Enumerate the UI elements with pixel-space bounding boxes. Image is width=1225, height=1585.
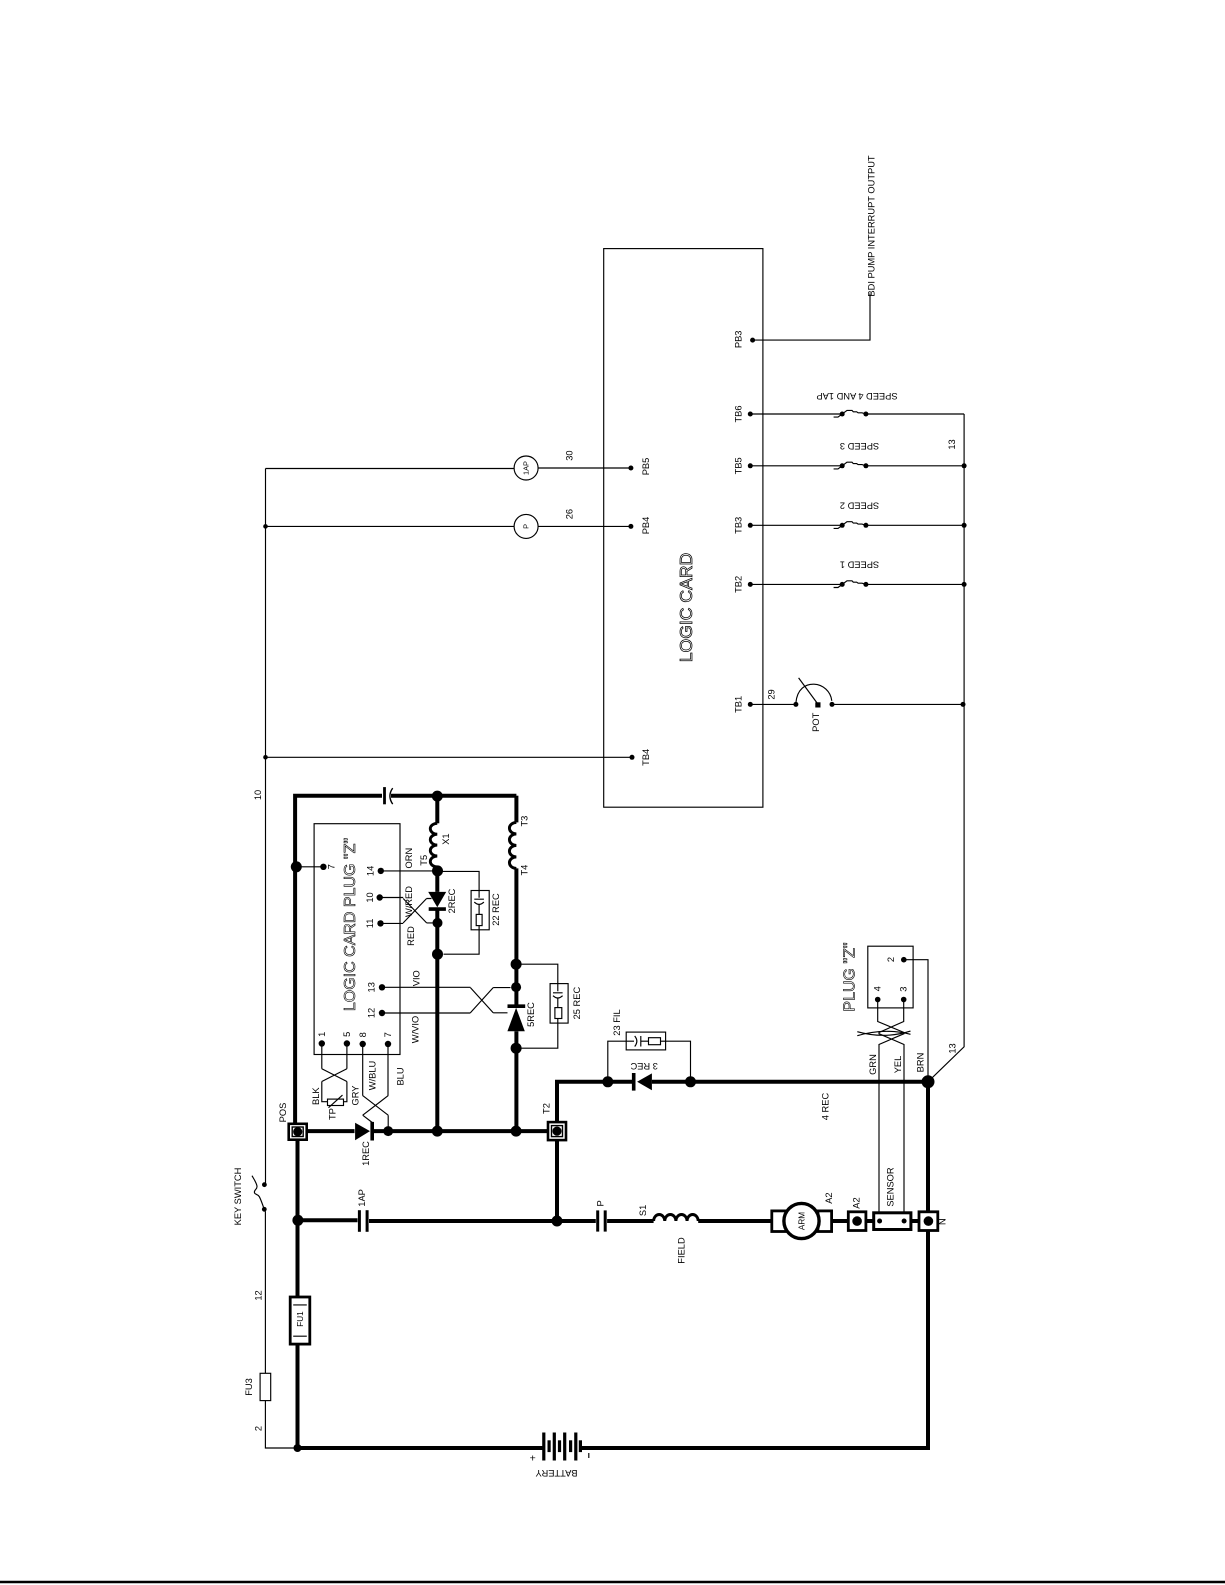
- cable twist symbol: [857, 1031, 910, 1036]
- pin 7 top of plug: [320, 864, 326, 870]
- coil P: [514, 514, 538, 538]
- svg-text:P: P: [522, 524, 531, 529]
- node 23FIL left: [602, 1076, 613, 1087]
- wire A2 to sensor: [866, 1219, 874, 1223]
- svg-text:FIELD: FIELD: [676, 1237, 686, 1264]
- svg-text:POT: POT: [811, 712, 821, 731]
- pin 13: [379, 984, 385, 990]
- wire 30: left rail corner to coil 1AP to PB5: [266, 467, 631, 470]
- node pin7 junction on thick line: [291, 861, 302, 872]
- wire P to FIELD: [607, 1219, 654, 1223]
- wire: thin left rail from wire30 corner down to key switch: [265, 469, 267, 1185]
- svg-text:30: 30: [564, 450, 574, 460]
- wire GRN pin4 twisted to sensor: [878, 1000, 904, 1213]
- svg-text:1: 1: [317, 1032, 327, 1037]
- fuse FU1: [290, 1297, 310, 1344]
- svg-text:A2: A2: [824, 1192, 834, 1203]
- fuse FU3: [260, 1373, 271, 1400]
- wire TB2 to switch: [750, 583, 964, 585]
- node TB1: [748, 702, 753, 707]
- svg-text:BDI PUMP INTERRUPT OUTPUT: BDI PUMP INTERRUPT OUTPUT: [867, 155, 877, 297]
- svg-text:X1: X1: [441, 833, 451, 844]
- snubber 25 REC: [522, 964, 582, 1048]
- svg-text:W/VIO: W/VIO: [410, 1016, 420, 1043]
- pin 12: [379, 1010, 385, 1016]
- capacitor P: [595, 1200, 605, 1231]
- wire X1 branch top: [435, 796, 439, 824]
- svg-text:13: 13: [367, 982, 377, 992]
- switch SPEED 1: [834, 581, 869, 588]
- svg-text:12: 12: [367, 1008, 377, 1018]
- node 25REC top: [511, 959, 522, 970]
- svg-text:FU3: FU3: [244, 1378, 254, 1396]
- battery: [530, 1433, 589, 1478]
- svg-text:29: 29: [767, 689, 777, 699]
- svg-text:TB1: TB1: [734, 696, 744, 713]
- terminal N: [919, 1212, 947, 1231]
- svg-text:BLK: BLK: [311, 1087, 321, 1105]
- svg-text:+: +: [530, 1453, 536, 1465]
- wire PB3 to BDI output: [753, 293, 870, 340]
- svg-text:2REC: 2REC: [447, 888, 457, 913]
- node below 2REC: [433, 918, 443, 928]
- motor ARM: [772, 1192, 834, 1238]
- svg-text:PB3: PB3: [734, 331, 744, 349]
- wire sensor to N: [911, 1219, 919, 1223]
- wire to P cap: [557, 1219, 596, 1223]
- bottom page rule: [0, 1581, 1225, 1583]
- wire pins 10/11 crossed to 2REC: [380, 898, 435, 924]
- wire TB3 to switch: [750, 524, 964, 526]
- diode 2REC: [428, 888, 457, 913]
- svg-text:LOGIC CARD: LOGIC CARD: [676, 553, 696, 663]
- svg-text:A2: A2: [851, 1197, 861, 1208]
- diode 1REC: [355, 1122, 372, 1166]
- svg-text:POS: POS: [278, 1103, 288, 1123]
- svg-text:4: 4: [873, 986, 883, 991]
- svg-text:SPEED 1: SPEED 1: [840, 560, 879, 570]
- node TB2: [748, 582, 753, 587]
- svg-text:SPEED 3: SPEED 3: [840, 441, 879, 451]
- svg-text:8: 8: [358, 1032, 368, 1037]
- transformer coil T3/T4: [509, 822, 516, 868]
- svg-text:YEL: YEL: [893, 1056, 903, 1074]
- svg-text:BRN: BRN: [916, 1053, 926, 1073]
- wire pin14 to X1 node: [381, 870, 438, 872]
- node on rail for TB4 wire: [263, 755, 268, 760]
- svg-text:GRY: GRY: [350, 1086, 360, 1106]
- svg-text:SENSOR: SENSOR: [886, 1167, 896, 1207]
- svg-text:10: 10: [365, 892, 375, 902]
- svg-text:TB2: TB2: [734, 576, 744, 593]
- svg-text:LOGIC CARD PLUG "Z": LOGIC CARD PLUG "Z": [342, 838, 359, 1011]
- node 5REC bottom: [511, 1043, 522, 1054]
- connector PLUG Z: [868, 946, 913, 1008]
- svg-text:GRN: GRN: [868, 1054, 878, 1075]
- potentiometer POT: [793, 678, 834, 732]
- pin 11: [377, 920, 383, 926]
- wire T3 branch: [514, 796, 518, 823]
- wire X1 to 2REC: [435, 867, 439, 892]
- svg-text:14: 14: [366, 866, 376, 876]
- svg-text:11: 11: [365, 919, 375, 929]
- wire TB5 to switch: [750, 465, 964, 467]
- svg-text:PB5: PB5: [641, 458, 651, 476]
- svg-text:12: 12: [254, 1290, 264, 1300]
- wire 2REC to bus: [435, 909, 439, 1131]
- pin 2 of plug Z: [901, 957, 907, 963]
- node rail TB5: [962, 463, 967, 468]
- svg-text:1AP: 1AP: [522, 461, 531, 475]
- pin 10: [377, 894, 383, 900]
- diode 3REC: [630, 1061, 658, 1091]
- svg-text:BLU: BLU: [396, 1067, 406, 1085]
- svg-text:TB6: TB6: [734, 405, 744, 422]
- svg-text:TP: TP: [328, 1108, 338, 1120]
- svg-text:3 REC: 3 REC: [630, 1061, 658, 1071]
- inductor X1: [430, 823, 437, 867]
- wire FU3 to battery bus: [265, 1401, 295, 1448]
- pin 5 bottom: [344, 1040, 350, 1046]
- svg-text:13: 13: [947, 1043, 957, 1053]
- svg-text:RED: RED: [406, 926, 416, 946]
- wire FU1 vertical top: [296, 1140, 300, 1297]
- node rail TB3: [962, 523, 967, 528]
- node 5REC top: [511, 982, 521, 992]
- svg-text:PLUG "Z": PLUG "Z": [842, 942, 859, 1011]
- wire FIELD to ARM: [698, 1219, 772, 1223]
- pin 4 of plug Z: [875, 997, 881, 1003]
- wire junction down to N: [926, 1082, 930, 1212]
- wire N to battery bus: [582, 1231, 929, 1449]
- node 1AP left junction: [292, 1215, 303, 1226]
- svg-text:5REC: 5REC: [526, 1002, 536, 1027]
- wire pin7 to thick line: [297, 866, 324, 868]
- node 23FIL right: [685, 1076, 696, 1087]
- svg-text:1REC: 1REC: [361, 1141, 371, 1166]
- node TB4: [630, 755, 635, 760]
- coil 1AP: [514, 456, 538, 480]
- wire: thick top loop wire 10: [295, 796, 382, 1124]
- wire 3REC row: [555, 1080, 928, 1084]
- node bus thin-wire corner: [294, 1444, 302, 1452]
- pin 1 bottom: [319, 1040, 325, 1046]
- wire pins 13/12 crossed to 5REC: [382, 987, 511, 1013]
- pin 3 of plug Z: [901, 997, 907, 1003]
- wire key switch to FU3: [264, 1211, 266, 1373]
- snubber 22 REC: [439, 871, 502, 954]
- capacitor on wire 10: [385, 787, 393, 804]
- wire ARM to A2: [832, 1219, 849, 1223]
- svg-text:S1: S1: [638, 1205, 648, 1216]
- wire 1AP row: [298, 1218, 358, 1222]
- node top of X1: [432, 791, 443, 802]
- svg-text:22 REC: 22 REC: [491, 893, 501, 926]
- wire T2 down to 1AP junction: [555, 1140, 559, 1221]
- sensor box: [874, 1213, 911, 1230]
- wire TB4: [265, 756, 632, 758]
- wire T4 to 5REC: [514, 868, 518, 1004]
- svg-text:N: N: [937, 1218, 947, 1225]
- wire TB6 to switch: [750, 413, 964, 415]
- svg-text:TB5: TB5: [734, 457, 744, 474]
- wire T2 up to 3REC wire: [555, 1082, 559, 1122]
- svg-text:T5: T5: [419, 855, 429, 866]
- svg-text:KEY SWITCH: KEY SWITCH: [233, 1168, 243, 1226]
- svg-text:13: 13: [947, 439, 957, 449]
- node X1 bottom: [432, 865, 443, 876]
- node bus BLU: [383, 1126, 393, 1136]
- switch SPEED 3: [834, 462, 869, 469]
- pin 14: [378, 868, 384, 874]
- node snubber return: [432, 949, 443, 960]
- wire YEL pin3 twisted to sensor: [879, 1000, 904, 1213]
- svg-text:1AP: 1AP: [357, 1189, 367, 1207]
- wire FU1 to battery bus corner: [298, 1344, 544, 1448]
- svg-text:5: 5: [342, 1032, 352, 1037]
- terminal T2: [541, 1103, 566, 1140]
- node on rail for wire 26: [263, 524, 268, 529]
- svg-text:SPEED 4 AND 1AP: SPEED 4 AND 1AP: [816, 391, 897, 401]
- node rail TB2: [962, 582, 967, 587]
- node PB4: [628, 524, 633, 529]
- wire 26: rail to coil P to PB4: [266, 525, 631, 527]
- svg-text:2: 2: [886, 957, 896, 962]
- svg-text:W/RED: W/RED: [404, 886, 414, 917]
- node T2 bottom junction: [552, 1216, 563, 1227]
- svg-text:4 REC: 4 REC: [821, 1093, 831, 1121]
- node bus T4: [511, 1126, 522, 1137]
- node big junction 13/BRN: [922, 1075, 935, 1088]
- svg-text:7: 7: [383, 1032, 393, 1037]
- svg-text:25 REC: 25 REC: [572, 987, 582, 1020]
- pin 8 bottom: [360, 1041, 366, 1047]
- wire 1AP to T2 junction: [369, 1219, 557, 1223]
- terminal A2: [848, 1197, 866, 1230]
- svg-text:23 FIL: 23 FIL: [612, 1009, 622, 1035]
- switch S2 key switch: [252, 1176, 267, 1212]
- svg-text:T4: T4: [520, 865, 530, 876]
- svg-text:2: 2: [254, 1426, 264, 1431]
- svg-text:10: 10: [253, 790, 263, 800]
- node TB3: [748, 523, 753, 528]
- svg-text:T2: T2: [541, 1103, 551, 1114]
- node bus X1: [432, 1126, 443, 1137]
- wire 5REC to bus: [514, 1031, 518, 1131]
- wire BRN pin2 to junction: [904, 960, 928, 1082]
- logic card U1 box: [604, 249, 763, 808]
- svg-text:26: 26: [564, 509, 574, 519]
- svg-text:TB4: TB4: [641, 749, 651, 766]
- switch SPEED 4: [834, 410, 869, 417]
- svg-text:PB4: PB4: [641, 517, 651, 535]
- node TB5: [748, 463, 753, 468]
- pin 7 bottom: [385, 1041, 391, 1047]
- svg-text:SPEED 2: SPEED 2: [840, 501, 879, 511]
- wire pins 1/5 crossed to TP: [322, 1044, 347, 1102]
- wire pins 8/7 crossed to 1REC: [363, 1044, 389, 1129]
- svg-text:7: 7: [327, 864, 337, 869]
- terminal POS: [278, 1103, 307, 1140]
- wire cap to T3 corner: [391, 794, 516, 798]
- wire TB1 to pot: [750, 703, 963, 705]
- svg-text:ARM: ARM: [797, 1212, 806, 1230]
- inductor FIELD: [654, 1214, 699, 1221]
- svg-text:ORN: ORN: [404, 848, 414, 869]
- svg-text:W/BLU: W/BLU: [367, 1061, 377, 1090]
- node PB5: [628, 466, 633, 471]
- wire: speed common rail 13: [928, 414, 964, 1082]
- wire bus 1REC to T2: [372, 1129, 548, 1133]
- capacitor 1AP: [357, 1189, 367, 1232]
- svg-text:3: 3: [899, 987, 909, 992]
- wire bus POS to 1REC: [307, 1129, 355, 1133]
- filter 23 FIL: [608, 1009, 691, 1081]
- svg-text:BATTERY: BATTERY: [535, 1468, 577, 1478]
- node rail TB1: [961, 702, 966, 707]
- diode 5REC: [507, 1002, 536, 1031]
- svg-text:TB3: TB3: [734, 517, 744, 534]
- switch SPEED 2: [834, 522, 869, 529]
- svg-text:VIO: VIO: [411, 970, 421, 986]
- svg-text:FU1: FU1: [296, 1311, 305, 1327]
- node PB3: [750, 338, 755, 343]
- connector logic card plug Z box: [314, 824, 400, 1055]
- node TB6: [748, 412, 753, 417]
- svg-text:P: P: [595, 1200, 605, 1206]
- svg-text:T3: T3: [520, 816, 530, 827]
- trimpot TP: [328, 1095, 344, 1120]
